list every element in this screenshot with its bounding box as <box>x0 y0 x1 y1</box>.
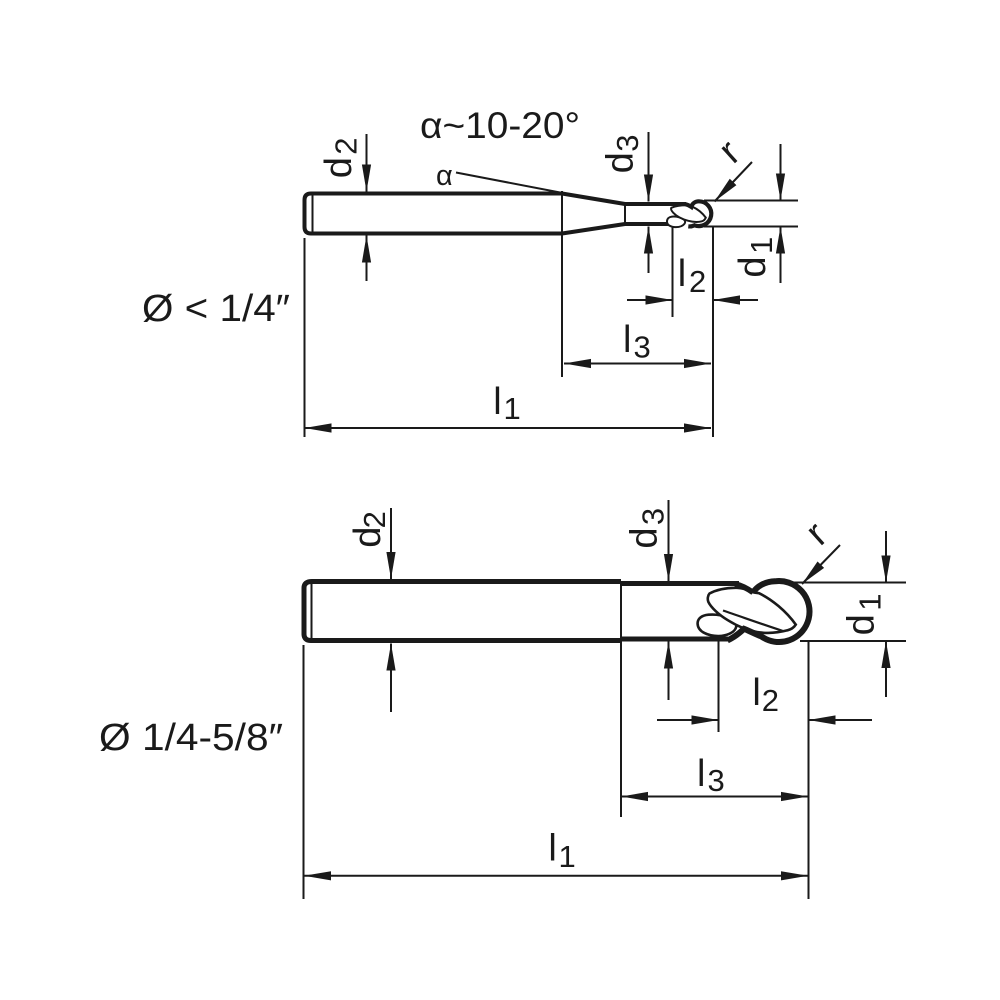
svg-text:3: 3 <box>610 135 645 152</box>
svg-text:2: 2 <box>762 683 779 718</box>
svg-text:d: d <box>600 152 642 173</box>
svg-text:3: 3 <box>635 508 670 525</box>
svg-text:d: d <box>318 157 360 178</box>
svg-text:3: 3 <box>634 330 651 365</box>
svg-text:1: 1 <box>504 391 521 426</box>
svg-text:d: d <box>347 527 389 548</box>
svg-text:1: 1 <box>744 237 779 254</box>
svg-text:1: 1 <box>853 593 888 610</box>
svg-text:l: l <box>493 381 501 423</box>
svg-text:d: d <box>841 614 883 635</box>
svg-text:Ø 1/4-5/8″: Ø 1/4-5/8″ <box>99 717 283 759</box>
svg-text:l: l <box>752 672 760 714</box>
svg-text:l: l <box>678 253 686 295</box>
svg-text:d: d <box>624 527 666 548</box>
svg-text:d: d <box>732 256 774 277</box>
svg-text:l: l <box>548 828 556 870</box>
svg-text:3: 3 <box>708 763 725 798</box>
svg-text:α~10-20°: α~10-20° <box>420 105 580 146</box>
svg-text:2: 2 <box>329 138 364 155</box>
svg-text:r: r <box>798 514 836 554</box>
svg-text:l: l <box>697 753 705 795</box>
svg-text:1: 1 <box>559 839 576 874</box>
svg-text:2: 2 <box>689 264 706 299</box>
svg-text:α: α <box>436 160 453 192</box>
svg-text:l: l <box>623 319 631 361</box>
svg-text:Ø < 1/4″: Ø < 1/4″ <box>142 288 290 330</box>
svg-text:2: 2 <box>357 511 392 528</box>
svg-text:r: r <box>711 132 749 172</box>
